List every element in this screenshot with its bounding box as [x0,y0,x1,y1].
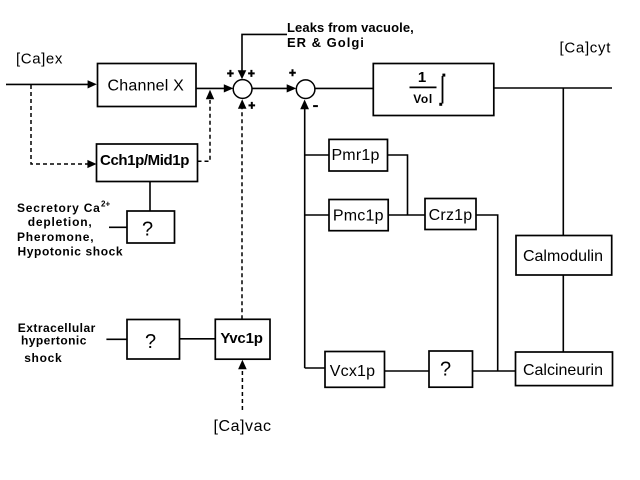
svg-text:?: ? [142,219,153,241]
svg-text:Hypotonic shock: Hypotonic shock [18,244,124,258]
node [Ca]ex [16,51,63,68]
wire Yvc1p dashed up into sum1 bottom [238,99,247,319]
wire branch down to Calmodulin [562,88,564,236]
wire Q2 to Yvc1p [180,338,216,340]
wire [Ca]vac dashed into Yvc1p bottom [238,360,247,410]
svg-text:[Ca]ex: [Ca]ex [16,51,63,68]
wire sum2 to integrator [315,87,373,89]
svg-text:Channel X: Channel X [108,78,185,95]
svg-text:Calmodulin: Calmodulin [523,248,603,265]
svg-text:Vcx1p: Vcx1p [330,363,375,380]
node Leaks label [287,20,414,50]
block Yvc1p [215,319,270,359]
svg-text:[Ca]cyt: [Ca]cyt [560,40,612,57]
node Extracellular label [18,321,96,365]
block Crz1p [425,199,476,230]
svg-text:Secretory Ca: Secretory Ca [17,201,101,215]
svg-text:Vol: Vol [413,92,433,106]
svg-text:Pmc1p: Pmc1p [333,208,384,225]
svg-text:Calcineurin: Calcineurin [523,362,603,379]
wire Calmodulin to Calcineurin [562,275,564,352]
wire input from left [6,80,97,88]
block Q3 ? [429,351,473,387]
wire Pmr1p to Pmc1p-Crz1p junction [388,155,408,215]
wire integrator output [494,87,612,89]
svg-text:1: 1 [418,69,426,86]
svg-text:Crz1p: Crz1p [429,207,473,224]
wire Pmc1p to Crz1p [388,214,425,216]
block Calcineurin [516,352,613,386]
wire secretory to Q1 [109,226,127,228]
minus sign S2 lower-right [313,105,318,107]
block Q2 ? [127,320,180,360]
svg-text:Pmr1p: Pmr1p [331,147,379,164]
svg-text:shock: shock [24,351,62,365]
svg-text:Pheromone,: Pheromone, [17,230,94,244]
wire [Ca]ex dashed feed to Cch1p [31,85,97,168]
block Cch1p/Mid1p [97,144,198,182]
svg-text:2+: 2+ [101,200,110,209]
wire pump chain vertical into sum2 bottom [300,100,309,369]
summing junction S1 [233,80,252,99]
block Pmc1p [329,200,388,231]
wire Vcx1p to Q3 [385,370,430,372]
plus sign S1 lower-right [249,102,256,109]
wire leak into sum1 top [238,34,287,79]
svg-text:Yvc1p: Yvc1p [220,330,262,347]
svg-text:?: ? [440,359,451,381]
wire Cch1p dashed up into main line [198,90,215,162]
block Channel X [98,64,197,107]
wire Q1 to Cch1p [149,182,151,212]
wire chain elbow to Vcx1p [305,367,325,369]
wire Q3 to Calcineurin [473,370,516,372]
svg-text:[Ca]vac: [Ca]vac [214,418,272,435]
plus sign S1 upper-left [227,70,234,77]
plus sign S2 upper-left [289,69,296,76]
plus sign S1 upper-right [248,70,255,77]
wire Crz1p down to Q3 row [476,215,498,371]
svg-text:ER & Golgi: ER & Golgi [287,35,365,50]
svg-text:?: ? [145,331,156,353]
wire chain to Pmr1p [305,154,329,156]
svg-text:Leaks from vacuole,: Leaks from vacuole, [287,20,414,35]
block integrator 1/Vol [373,64,494,116]
node [Ca]vac [214,418,272,435]
svg-text:Cch1p/Mid1p: Cch1p/Mid1p [100,152,189,169]
block Q1 ? [127,211,175,243]
wire extracellular to Q2 [106,338,127,340]
block Vcx1p [325,352,385,388]
block Pmr1p [329,139,388,171]
svg-text:depletion,: depletion, [28,215,93,229]
wire chain to Pmc1p [305,214,329,216]
node Secretory label [17,200,123,259]
block Calmodulin [516,236,612,276]
summing junction S2 [296,80,315,99]
node [Ca]cyt [560,40,612,57]
wire Channel X to sum1 [196,84,233,92]
wire sum1 to sum2 [252,84,296,92]
svg-text:hypertonic: hypertonic [21,334,87,348]
